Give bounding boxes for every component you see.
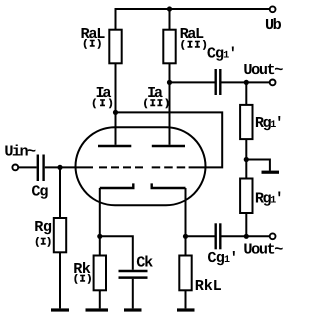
resistor Rg (I) [54,218,66,252]
resistor RaL(II) [163,30,175,64]
svg-text:RkL: RkL [195,277,222,295]
ground (right) [262,171,280,174]
resistor RkL [179,256,191,291]
wire: Ck to ground [132,279,134,309]
wire: anode I to grid II coupling [116,112,223,167]
wire: anode II to coupling cap [170,81,215,83]
terminal Ub [270,6,276,12]
svg-text:Uin~: Uin~ [4,143,36,161]
svg-text:Cg1': Cg1' [207,249,238,267]
resistor Rg1' (lower) [240,179,252,214]
junction dot midpoint node [244,157,249,162]
svg-text:Cg: Cg [31,182,48,200]
wire: Rg1' lower to Uout bottom [245,213,247,236]
wire: between Rg1' resistors [245,139,247,178]
svg-text:Ck: Ck [136,253,153,271]
wire: input to Cg [19,166,37,168]
wire: Rg1' upper lead [245,82,247,105]
wire: anode II lead [169,63,171,145]
svg-text:(II): (II) [180,40,208,52]
svg-text:Ub: Ub [265,16,282,34]
anode plate I [98,145,131,148]
wire: Rg lead [59,167,61,218]
svg-text:Rg1': Rg1' [255,114,284,132]
capacitor Ck [119,270,148,273]
svg-text:Uout~: Uout~ [243,241,283,259]
wire: cap to Uout top [222,81,270,83]
junction dot supply node [167,6,172,11]
ground (RkL) [177,308,195,311]
resistor RaL(I) [109,30,121,64]
junction dot cathode I node [97,234,102,239]
wire: RaL(II) top lead [169,9,171,30]
svg-text:(I): (I) [91,98,114,110]
svg-text:Rg1': Rg1' [255,189,284,207]
ground (Rg) [51,308,69,311]
wire: RkL to ground [185,290,187,308]
junction dot anode I node [113,110,118,115]
junction dot Uout bottom node [244,234,249,239]
wire: cathode II node to bottom cap [186,235,215,237]
tube envelope [76,127,206,205]
wire: cathode II lead [185,188,187,256]
wire: Ub supply rail [116,9,270,30]
svg-text:(I): (I) [34,236,52,248]
resistor Rk (I) [94,256,106,291]
wire: to right ground [246,160,270,171]
junction dot anode II node [167,80,172,85]
terminal Uout~ (bottom) [270,233,276,239]
grid II (dashed) [152,166,186,168]
junction dot cathode II node [183,234,188,239]
svg-text:(I): (I) [82,39,102,51]
ground (Rk) [86,308,109,311]
wire: Cg to grid I [45,166,93,168]
resistor Rg1' (upper) [240,105,252,139]
cathode II [152,183,186,188]
capacitor Cg [37,155,39,182]
ground (Ck) [124,308,142,311]
cathode I [100,183,134,188]
svg-text:Uout~: Uout~ [243,61,283,79]
capacitor Cg1' (bottom) [214,223,216,249]
wire: cathode I lead [99,188,101,256]
wire: anode I lead [115,63,117,145]
anode plate II [152,145,185,148]
wire: Rk to ground [99,290,101,308]
terminal Uin~ [12,165,18,171]
wire: cathode I node to Ck [100,236,133,269]
wire: Rg to ground [59,252,61,308]
junction dot Uout top node [244,80,249,85]
grid I (dashed) [99,166,143,168]
svg-text:(I): (I) [73,274,93,286]
capacitor Cg1' (top) [214,69,216,95]
junction dot grid I node [57,165,62,170]
svg-text:Rg: Rg [34,218,52,236]
wire: cap to Uout bottom [222,235,270,237]
terminal Uout~ (top) [270,80,276,86]
svg-text:(II): (II) [143,98,171,110]
svg-text:Cg1': Cg1' [207,45,238,63]
